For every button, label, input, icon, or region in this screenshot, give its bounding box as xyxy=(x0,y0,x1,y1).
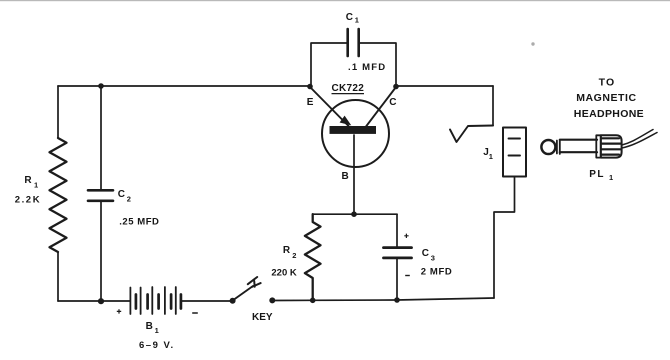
wire: left vertical upper xyxy=(57,86,59,138)
svg-text:220 K: 220 K xyxy=(271,268,296,279)
svg-text:1: 1 xyxy=(155,326,159,335)
transistor Q1 circle CK722 xyxy=(322,100,389,167)
wire: bottom rail left segment xyxy=(58,300,130,302)
svg-text:HEADPHONE: HEADPHONE xyxy=(574,108,644,120)
wire: left vertical lower xyxy=(57,252,59,301)
svg-text:TO: TO xyxy=(599,77,616,89)
key switch knob xyxy=(248,277,261,287)
capacitor C2 top lead xyxy=(100,86,102,189)
svg-text:B: B xyxy=(342,171,349,182)
capacitor C2 bottom lead xyxy=(100,202,102,301)
jack J1 inner contact marks xyxy=(509,139,521,156)
svg-text:2 MFD: 2 MFD xyxy=(421,267,453,278)
resistor R1 zigzag xyxy=(50,138,67,252)
capacitor C3 top lead xyxy=(396,214,398,246)
svg-text:MAGNETIC: MAGNETIC xyxy=(576,92,636,104)
svg-text:2.2K: 2.2K xyxy=(15,194,41,205)
wire: top rail left (node to E) xyxy=(58,85,310,87)
svg-text:1: 1 xyxy=(34,181,38,190)
capacitor C3 plates xyxy=(384,248,412,258)
node: base mid-rail junction xyxy=(351,211,357,217)
node: C2 top junction xyxy=(98,83,104,89)
jack J1 body rectangle xyxy=(503,128,526,177)
capacitor C3 bottom lead xyxy=(396,259,398,300)
wire: base lead down xyxy=(353,135,355,214)
label C3 polarity minus xyxy=(405,275,410,277)
svg-text:2: 2 xyxy=(127,195,131,204)
svg-text:1: 1 xyxy=(609,173,613,182)
svg-text:KEY: KEY xyxy=(252,312,273,323)
plug PL1 cap knurl stripes xyxy=(602,138,621,154)
svg-text:3: 3 xyxy=(431,254,435,263)
resistor R2 zigzag with stubs xyxy=(305,214,321,300)
plug PL1 tip ball xyxy=(541,140,555,154)
svg-text:R: R xyxy=(283,245,291,256)
paper speck artifact xyxy=(531,42,534,45)
node: key left terminal xyxy=(230,298,236,304)
capacitor C1 plates xyxy=(348,29,359,56)
node: R2 bottom junction xyxy=(310,298,316,304)
capacitor C1 loop right xyxy=(359,43,396,86)
plug PL1 collar xyxy=(596,135,601,157)
svg-text:PL: PL xyxy=(589,169,605,180)
transistor Q1 base bar xyxy=(330,126,377,134)
node: key right terminal xyxy=(269,297,275,303)
plug PL1 cord leads xyxy=(622,130,657,149)
node: emitter top junction xyxy=(307,84,313,90)
jack J1 spring contact arm xyxy=(450,126,493,143)
plug PL1 shaft xyxy=(560,140,597,153)
wire: top rail right (C to right corner) xyxy=(396,85,493,87)
svg-text:6–9 V.: 6–9 V. xyxy=(139,340,175,351)
svg-text:C: C xyxy=(422,248,429,259)
node: C2 bottom junction xyxy=(98,298,104,304)
label battery plus xyxy=(117,309,121,313)
svg-text:B: B xyxy=(146,321,153,332)
wire: mid rail (R2/C3 top) xyxy=(313,213,397,215)
svg-text:1: 1 xyxy=(489,152,493,161)
svg-text:1: 1 xyxy=(355,16,359,25)
svg-text:C: C xyxy=(118,189,125,200)
capacitor C2 plates xyxy=(88,190,113,201)
wire: J1 down to bottom rail xyxy=(494,177,515,299)
svg-text:2: 2 xyxy=(292,251,296,260)
transistor Q1 emitter lead xyxy=(310,87,350,128)
battery B1 cells xyxy=(130,287,175,314)
transistor Q1 emitter arrowhead xyxy=(340,116,352,126)
transistor Q1 collector lead xyxy=(366,87,396,127)
svg-text:R: R xyxy=(24,175,32,186)
wire: key to R2 bottom node xyxy=(272,299,312,301)
wire: right vertical from top rail xyxy=(492,86,494,126)
key switch lever xyxy=(233,286,253,301)
wire: C3 node to right bottom corner xyxy=(397,298,494,300)
capacitor C1 loop left xyxy=(311,43,347,86)
svg-text:CK722: CK722 xyxy=(332,83,365,94)
svg-text:.1 MFD: .1 MFD xyxy=(348,62,386,73)
svg-text:C: C xyxy=(389,97,396,108)
label C3 polarity plus xyxy=(404,234,408,238)
plug PL1 neck xyxy=(557,140,560,154)
plug PL1 cap body xyxy=(601,135,622,157)
wire: battery to key xyxy=(181,300,233,302)
node: C3 bottom junction xyxy=(394,297,400,303)
scan edge artifact top xyxy=(0,0,670,1)
label battery minus xyxy=(192,312,198,314)
underline of CK722 xyxy=(332,93,365,95)
svg-text:E: E xyxy=(307,97,314,108)
svg-text:.25 MFD: .25 MFD xyxy=(119,216,159,227)
wire: R2 node to C3 node bottom rail xyxy=(313,299,397,301)
svg-text:C: C xyxy=(346,12,353,23)
node: collector top junction xyxy=(393,84,399,90)
